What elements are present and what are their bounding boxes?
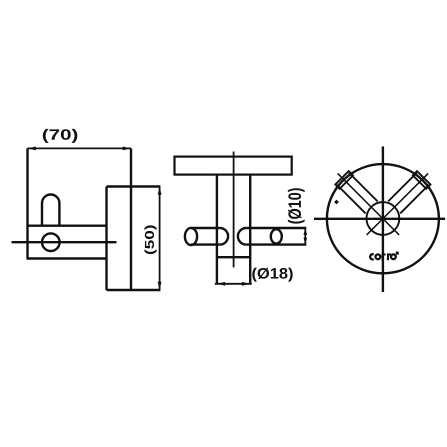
extension line right / wall plate right edge — [130, 148, 132, 290]
dimension line (70) — [28, 147, 132, 151]
COTTO logo — [370, 252, 399, 261]
right rod (cylinder) — [238, 228, 306, 245]
dimension line (Ø18) — [215, 282, 252, 286]
small reference dot — [334, 200, 339, 205]
mounting plate (edge view) — [175, 157, 292, 175]
wall plate front circle — [327, 164, 439, 273]
left rod (front view, 45 deg) — [331, 167, 406, 242]
hook tip (rounded post, side view) — [42, 195, 59, 226]
stem right outline + extension — [249, 175, 251, 284]
right rod end cap ellipse — [271, 229, 282, 243]
vertical centerline of middle view — [233, 152, 235, 268]
stem left outline + extension — [216, 175, 218, 284]
dimension line (Ø10) — [304, 228, 308, 245]
dimension label (Ø18) — [252, 268, 292, 282]
horizontal centerline — [314, 218, 445, 220]
dimension line (50) — [158, 187, 162, 291]
dimension label (Ø10) rotated — [288, 188, 305, 223]
wall plate (side view) — [107, 187, 161, 291]
stem bottom edge — [217, 256, 250, 258]
dimension label (50) rotated — [144, 225, 156, 254]
right rod (front view, 45 deg) — [360, 167, 435, 242]
left rod (cylinder) — [191, 228, 228, 245]
vertical centerline — [382, 146, 384, 292]
hook arm (side view rectangle) — [27, 226, 107, 259]
screw hole circle — [42, 233, 60, 251]
extension line left (hook front edge) — [26, 148, 28, 258]
dimension label (70) — [43, 129, 77, 143]
left rod end cap ellipse — [185, 228, 197, 245]
center boss circle — [367, 202, 400, 235]
centerline of side view — [12, 241, 117, 243]
